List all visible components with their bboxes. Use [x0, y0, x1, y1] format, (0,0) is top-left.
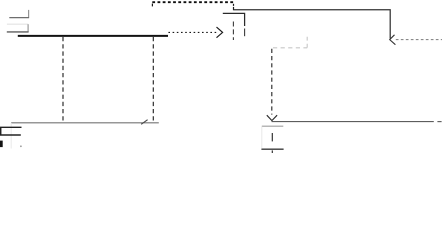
bracket S3 (bottom-left open rectangle, clipped at left) [0, 127, 22, 135]
wire W1 (main heavy horizontal line) [18, 35, 168, 37]
node D1 (tiny dot) [20, 145, 22, 147]
box B (top-left step shape 2, light top edge) [7, 24, 29, 32]
bracket C1 (corner shape under dashed box) [223, 13, 245, 26]
block S4 (small dark bar at bottom-left edge) [0, 141, 3, 148]
wire W3 (bottom-right horizontal line) [272, 121, 442, 123]
lifeline V3 (dashed vertical below dashed box right corner) [232, 22, 234, 41]
lifeline V1 (left dashed vertical) [62, 37, 64, 123]
arrow A2 (dashed connector from right edge, open arrowhead pointing left) [390, 35, 442, 45]
lifeline V4 (dashed vertical below bracket C1) [244, 29, 246, 37]
box A (top-left step shape 1, bottom-right edges) [9, 10, 29, 18]
arrow A1 (dotted arrow pointing right) [168, 27, 222, 38]
wire W2 (long elbow: right then down) [234, 10, 391, 39]
wire W5 (faint vertical drop at left) [10, 123, 12, 149]
arrow A3 (long dashed vertical with down arrowhead) [267, 49, 277, 121]
dashed box U1 (top edge, clipped at top) [152, 2, 233, 10]
lifeline V2 (right dashed vertical) [152, 37, 154, 123]
node T1 (diagonal tick on wire W4) [141, 120, 147, 125]
capacitor S2 (plate pair under arrow A3) [261, 126, 283, 153]
connector S1 (light dashed step) [273, 37, 307, 48]
wire W4 (bottom-left gray horizontal line) [11, 122, 159, 124]
